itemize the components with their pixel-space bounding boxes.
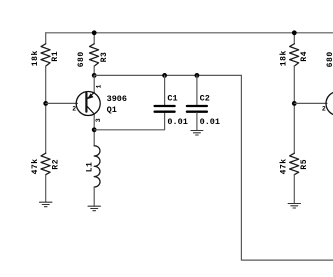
svg-text:0.01: 0.01 bbox=[167, 117, 187, 127]
resistor R1 18k bbox=[41, 44, 50, 66]
wire collector vertical bbox=[93, 114, 95, 146]
svg-text:R2: R2 bbox=[52, 159, 61, 170]
resistor R2 47k bbox=[41, 153, 50, 175]
wire R4 column top bbox=[293, 33, 295, 44]
svg-text:1: 1 bbox=[95, 85, 102, 89]
node Q1 emitter / cap rail junction bbox=[92, 73, 97, 78]
transistor Q1 2N3906 bbox=[76, 92, 100, 116]
svg-text:R1: R1 bbox=[51, 51, 60, 62]
wire R3 column top bbox=[93, 33, 95, 44]
capacitor C1 0.01 bbox=[155, 73, 175, 112]
wire collector to C1 bottom bbox=[94, 113, 164, 130]
svg-text:C2: C2 bbox=[200, 94, 210, 104]
svg-text:18k: 18k bbox=[31, 50, 40, 66]
wire R2 to ground bbox=[45, 175, 47, 202]
inductor L1 bbox=[94, 146, 100, 187]
node rail junction R3 bbox=[92, 30, 97, 35]
wire left column top (rail corner to R1) bbox=[45, 33, 47, 44]
capacitor C2 0.01 bbox=[187, 73, 207, 130]
wire R5 to ground bbox=[293, 175, 295, 204]
transistor Q2 (partially visible at edge) bbox=[326, 92, 333, 116]
node base divider junction right bbox=[292, 101, 297, 106]
svg-text:3: 3 bbox=[95, 118, 102, 122]
resistor R4 18k bbox=[290, 44, 299, 66]
wire L1 to ground bbox=[93, 187, 95, 206]
ground below C2 bbox=[191, 131, 203, 136]
wire Q1 base bbox=[46, 102, 78, 104]
wire right drop and bottom run bbox=[241, 75, 333, 260]
svg-text:Q1: Q1 bbox=[107, 105, 117, 115]
svg-text:680: 680 bbox=[77, 51, 86, 67]
wire emitter vertical bbox=[93, 75, 95, 92]
svg-text:3906: 3906 bbox=[107, 94, 127, 104]
node rail junction R4 bbox=[292, 30, 297, 35]
node base divider junction left bbox=[43, 101, 48, 106]
wire Q2 base bbox=[294, 102, 327, 104]
svg-text:680: 680 bbox=[326, 51, 333, 67]
svg-text:R3: R3 bbox=[100, 52, 109, 63]
ground below R5 bbox=[288, 204, 300, 209]
svg-text:18k: 18k bbox=[279, 50, 288, 66]
wire R4 bottom to base node right bbox=[293, 66, 295, 153]
svg-text:R5: R5 bbox=[300, 159, 309, 170]
ground below L1 bbox=[88, 206, 100, 211]
svg-text:L1: L1 bbox=[85, 162, 94, 173]
resistor R3 680 bbox=[90, 44, 99, 66]
svg-text:2: 2 bbox=[322, 106, 326, 113]
wire top power rail bbox=[46, 32, 333, 34]
svg-text:47k: 47k bbox=[31, 158, 40, 174]
node Q1 collector junction bbox=[92, 127, 97, 132]
ground below R2 bbox=[40, 202, 52, 207]
wire R1 bottom to base node bbox=[45, 66, 47, 153]
svg-text:2: 2 bbox=[72, 106, 76, 113]
svg-text:C1: C1 bbox=[167, 94, 177, 104]
resistor R5 47k bbox=[290, 153, 299, 175]
svg-text:0.01: 0.01 bbox=[200, 117, 220, 127]
wire cap rail bbox=[94, 74, 241, 76]
svg-text:47k: 47k bbox=[280, 158, 289, 174]
wire R3 bottom to node bbox=[93, 66, 95, 75]
svg-text:R4: R4 bbox=[300, 51, 309, 62]
